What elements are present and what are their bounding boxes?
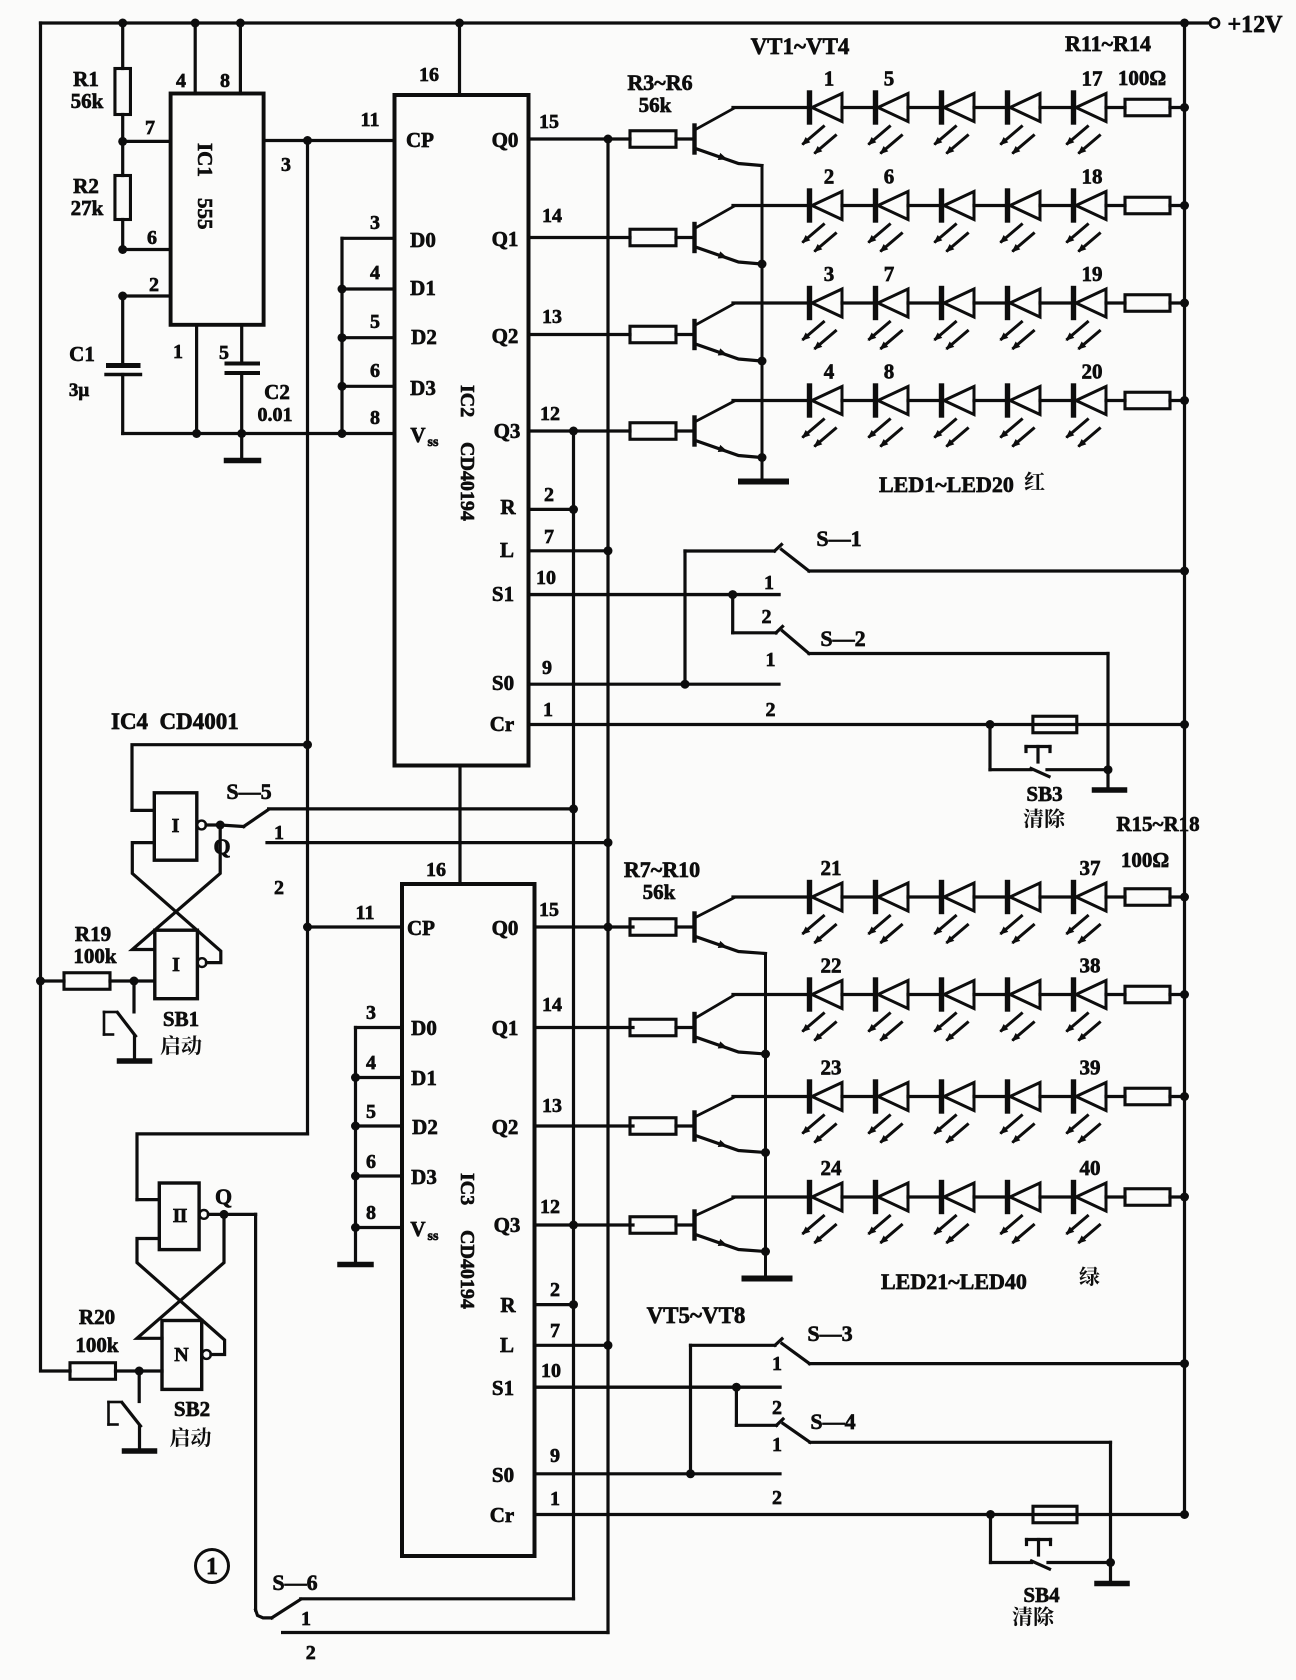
svg-text:VT5~VT8: VT5~VT8 [647,1303,746,1328]
resistor base R7-R10[0] [630,919,676,936]
wire IC3 S1 row [535,1385,781,1388]
wire IC3 Q0 stub [535,925,634,928]
svg-text:1: 1 [824,67,835,91]
svg-text:R2: R2 [73,174,99,198]
svg-text:40: 40 [1080,1156,1101,1180]
svg-text:12: 12 [540,403,560,425]
wire D2 stub [342,336,395,339]
wire latch1 cross B [132,843,221,963]
wire Q1 stub [529,236,631,239]
svg-text:2: 2 [762,606,772,628]
svg-text:6: 6 [370,360,380,382]
resistor R16 [1106,993,1125,996]
svg-text:1: 1 [772,1434,782,1456]
svg-text:9: 9 [550,1445,560,1467]
svg-text:7: 7 [884,262,895,286]
wire latch2 cross A [137,1214,224,1338]
svg-text:12: 12 [540,1196,560,1218]
svg-text:24: 24 [821,1156,843,1180]
svg-text:CD40194: CD40194 [456,1230,478,1309]
LED row 8 LEDs 24..40 [807,1183,812,1212]
svg-text:S—1: S—1 [816,526,861,551]
wire Cr row [529,723,1185,726]
wire S-1 output [809,569,1185,572]
ground SB3 [1106,770,1109,788]
svg-text:SB4: SB4 [1023,1583,1060,1607]
svg-text:Q: Q [215,1184,232,1209]
LED row 2 LEDs 2,6..18 [807,191,812,220]
svg-text:100k: 100k [73,944,117,968]
svg-text:15: 15 [539,899,559,921]
wire IC3 pin16 [458,766,461,885]
resistor base R7-R10[1] [630,1019,676,1036]
svg-text:4: 4 [370,262,380,284]
svg-text:Q1: Q1 [492,227,519,251]
wire 555 pin5 [240,325,243,362]
switch SB3 [988,725,991,770]
svg-text:V: V [410,1217,425,1241]
svg-text:Q2: Q2 [492,324,519,348]
shift register IC3 CD40194 box [402,884,535,1556]
wire collector row VT1 [733,106,810,109]
wire Q3 stub [529,429,631,432]
svg-text:19: 19 [1082,262,1103,286]
wire collector row VT4 [733,1195,810,1198]
svg-text:8: 8 [370,407,380,429]
svg-text:8: 8 [366,1202,376,1224]
transistor VT3 [692,321,696,348]
svg-text:37: 37 [1080,856,1101,880]
svg-text:S1: S1 [492,1376,514,1400]
svg-text:Q3: Q3 [494,1213,521,1237]
svg-text:0.01: 0.01 [258,404,293,426]
wire latch2 Q drop [254,1214,257,1610]
svg-text:13: 13 [542,306,562,328]
svg-text:17: 17 [1082,67,1103,91]
svg-text:8: 8 [884,360,895,384]
wire IC3 S0 row [535,1472,781,1475]
label SB4 qingchu [1013,1607,1033,1627]
wire clock vertical [306,141,309,1134]
resistor SB4 pullup [1033,1506,1077,1523]
svg-text:7: 7 [544,526,554,548]
svg-text:20: 20 [1082,360,1103,384]
resistor base R7-R10[2] [630,1118,676,1135]
svg-text:S—5: S—5 [226,779,271,804]
transistor VT1 [692,914,696,941]
svg-text:SB2: SB2 [174,1397,210,1421]
svg-text:N: N [174,1344,189,1366]
svg-text:2: 2 [544,484,554,506]
resistor R19 [41,979,65,982]
svg-text:5: 5 [219,342,229,364]
resistor R14 [1106,399,1125,402]
wire IC3 Q1 stub [535,1026,634,1029]
svg-text:ss: ss [428,435,439,450]
svg-text:10: 10 [536,567,556,589]
wire IC3 Q3 stub [535,1223,634,1226]
svg-text:555: 555 [193,198,217,230]
svg-text:VT1~VT4: VT1~VT4 [751,34,850,59]
junction Cr row to SB3 [986,720,995,729]
svg-text:D3: D3 [410,376,436,400]
wire latch2 cross B [137,1239,225,1355]
svg-text:100Ω: 100Ω [1121,848,1169,872]
svg-text:4: 4 [176,70,186,92]
svg-text:4: 4 [366,1052,376,1074]
svg-text:2: 2 [149,274,159,296]
switch S-1 [685,549,775,552]
wire IC3 Cr row [535,1513,1185,1516]
svg-text:3: 3 [281,154,291,176]
svg-text:D3: D3 [411,1165,437,1189]
svg-text:LED21~LED40: LED21~LED40 [881,1269,1027,1294]
svg-text:56k: 56k [71,89,104,113]
wire IC3 D2 stub [356,1124,403,1127]
wire IC3 D1 stub [356,1076,403,1079]
wire S-5 contact2 [267,841,608,844]
junction emitter VT3 [761,1148,770,1157]
junction S1 row [728,590,737,599]
gate IV of IC4 [162,1321,202,1390]
svg-text:I: I [172,815,180,837]
svg-text:11: 11 [356,902,375,924]
svg-text:3μ: 3μ [69,380,90,401]
svg-text:23: 23 [821,1056,842,1080]
ground VT emitters [745,1276,790,1282]
svg-text:I: I [180,1205,188,1227]
svg-text:CP: CP [407,916,435,940]
wire collector row VT4 [733,399,810,402]
node +12V supply terminal [1210,18,1219,27]
svg-text:1: 1 [543,699,553,721]
wire pin8 [239,23,242,94]
switch S-2 [731,595,734,633]
wire latch1 gate1 input [132,809,154,812]
svg-text:21: 21 [821,856,842,880]
wire L stub [529,549,609,552]
wire pin7 row [123,140,171,143]
svg-text:D0: D0 [410,228,436,252]
svg-text:10: 10 [541,1360,561,1382]
wire S-6 contact2 [283,1631,608,1634]
svg-text:C2: C2 [264,380,290,404]
wire latch2 top [137,1134,308,1200]
junction Cr resistor to rail [1180,720,1189,729]
switch SB4 [989,1515,992,1563]
svg-text:39: 39 [1080,1056,1101,1080]
svg-text:IC1: IC1 [193,143,217,177]
svg-text:IC4 CD4001: IC4 CD4001 [111,709,239,734]
svg-text:4: 4 [824,360,835,384]
resistor R18 [1106,1195,1125,1198]
transistor VT4 [692,418,696,445]
svg-text:R1: R1 [73,67,99,91]
svg-text:I: I [172,954,180,976]
wire top +12V rail [41,21,1211,24]
wire IC3 L stub [535,1344,609,1347]
svg-text:S—2: S—2 [820,626,865,651]
svg-text:IC2: IC2 [456,385,478,417]
ground SB1 [120,1058,150,1064]
label SB3 qingchu [1024,809,1044,829]
svg-text:+12V: +12V [1227,12,1283,38]
resistor base R7-R10[3] [630,1217,676,1234]
svg-text:5: 5 [884,67,895,91]
junction emitter VT4 [758,453,767,462]
transistor VT3 [692,1113,696,1140]
svg-text:56k: 56k [639,93,672,117]
wire IC3 data ladder [354,1028,357,1228]
junction emitter VT3 [758,357,767,366]
wire latch2 gate3 input [137,1198,159,1201]
wire S-3 contact1 drop [689,1345,692,1474]
wire Q0 stub [529,137,631,140]
ground IC3 Vss [354,1228,357,1262]
svg-text:SB3: SB3 [1026,782,1062,806]
svg-text:1: 1 [550,1488,560,1510]
wire S-1 contact1 drop [683,551,686,684]
svg-text:L: L [500,538,514,562]
svg-text:1: 1 [764,572,774,594]
svg-text:2: 2 [550,1279,560,1301]
svg-text:22: 22 [821,954,842,978]
wire IC3 D0 stub [356,1026,403,1029]
switch SB2 pushbutton [138,1371,141,1402]
svg-text:14: 14 [542,994,562,1016]
svg-text:2: 2 [766,699,776,721]
wire S-4 output [810,1441,1111,1444]
transistor VT2 [692,224,696,251]
svg-text:R7~R10: R7~R10 [624,857,700,882]
capacitor C1 [121,296,124,364]
wire IC3 CP row [308,925,403,928]
ground SB2 [125,1448,155,1454]
wire IC3 Q2 stub [535,1124,634,1127]
svg-text:6: 6 [147,227,157,249]
wire gate1 output [206,823,220,826]
svg-text:8: 8 [220,70,230,92]
svg-text:9: 9 [542,657,552,679]
svg-text:S—3: S—3 [807,1321,852,1346]
svg-text:R19: R19 [75,922,111,946]
resistor base R3-R6[3] [630,423,676,440]
svg-text:5: 5 [366,1101,376,1123]
gate II of IC4 [155,930,198,999]
svg-text:5: 5 [370,311,380,333]
svg-text:6: 6 [884,165,895,189]
transistor VT4 [692,1212,696,1239]
svg-text:SB1: SB1 [163,1007,199,1031]
svg-text:R3~R6: R3~R6 [627,70,692,95]
LED row 1 LEDs 1,5..17 [807,93,812,122]
svg-text:Q2: Q2 [492,1115,519,1139]
junction top rail to right rail [1180,19,1189,28]
junction Cr2 row to SB4 [986,1510,995,1519]
svg-text:3: 3 [366,1002,376,1024]
wire common emitter VT [761,166,764,479]
wire 555 pin1 [195,325,198,434]
svg-text:Q1: Q1 [492,1016,519,1040]
svg-text:1: 1 [274,822,284,844]
LED row 6 LEDs 22..38 [807,980,812,1009]
svg-text:D1: D1 [411,1066,437,1090]
label SB2 qidong [170,1427,189,1447]
resistor R15 [1106,895,1125,898]
resistor R20 [68,1369,71,1372]
wire common emitter VT [764,954,767,1276]
svg-text:100k: 100k [75,1333,119,1357]
wire 555 ground bus [123,432,395,435]
switch S-6 [256,1610,272,1618]
resistor R1 [121,23,124,69]
junction R1 top at rail [118,19,127,28]
svg-text:2: 2 [824,165,835,189]
junction Cr2 resistor to rail [1180,1510,1189,1519]
op-amp U1 IC1 555 timer box [171,94,264,325]
svg-text:D2: D2 [411,325,437,349]
svg-text:16: 16 [419,64,439,86]
gate III of IC4 [159,1183,199,1250]
svg-text:1: 1 [772,1353,782,1375]
svg-text:Cr: Cr [490,712,515,736]
wire D1 stub [342,287,395,290]
svg-text:2: 2 [772,1487,782,1509]
LED row 7 LEDs 23..39 [807,1082,812,1111]
wire S0 row [529,683,780,686]
svg-text:2: 2 [274,877,284,899]
svg-text:38: 38 [1080,954,1101,978]
LED row 4 LEDs 4,8..20 [807,386,812,415]
wire IC2 pin16 [458,23,461,95]
resistor R2 [121,141,124,175]
svg-text:16: 16 [426,859,446,881]
svg-text:14: 14 [542,205,562,227]
resistor base R3-R6[0] [630,131,676,148]
wire S-6 contact1 [301,1597,574,1600]
wire IC2 data ladder [340,238,343,433]
wire R stub [529,508,574,511]
junction IC3 S1 row [732,1383,741,1392]
svg-text:ss: ss [428,1229,439,1244]
svg-text:Q0: Q0 [492,916,519,940]
wire IC3 R stub [535,1303,574,1306]
wire Q2 stub [529,333,631,336]
svg-text:27k: 27k [71,196,104,220]
svg-text:18: 18 [1082,165,1103,189]
svg-text:D0: D0 [411,1016,437,1040]
capacitor C2 [227,362,259,366]
svg-text:Q: Q [213,834,230,859]
svg-text:15: 15 [539,111,559,133]
svg-text:2: 2 [772,1397,782,1419]
resistor R17 [1106,1095,1125,1098]
svg-text:56k: 56k [643,880,676,904]
wire right +12V rail [1183,23,1186,1515]
LED row 5 LEDs 21..37 [807,883,812,912]
wire S-5 contact1 [269,807,574,810]
svg-text:LED1~LED20: LED1~LED20 [879,472,1014,497]
svg-text:Q3: Q3 [494,419,521,443]
switch S-4 [735,1387,738,1425]
resistor R11 [1106,106,1125,109]
svg-text:L: L [500,1333,514,1357]
switch S-3 [691,1344,776,1347]
wire 555 pin3 to IC2 CP [264,139,395,142]
svg-text:S—6: S—6 [272,1570,317,1595]
svg-text:IC3: IC3 [456,1173,478,1205]
wire pin2 row [123,294,171,297]
svg-text:S0: S0 [492,1463,514,1487]
wire latch1 cross A [132,825,220,950]
wire IC3 Vss stub [356,1226,403,1229]
junction emitter VT2 [758,260,767,269]
wire IC3 D3 stub [356,1174,403,1177]
svg-text:CD40194: CD40194 [456,442,478,521]
wire collector row VT3 [733,301,810,304]
svg-text:Cr: Cr [490,1503,515,1527]
svg-text:1: 1 [766,649,776,671]
gate I of IC4 [154,793,197,860]
junction emitter VT2 [761,1050,770,1059]
svg-text:13: 13 [542,1095,562,1117]
svg-text:1: 1 [301,1608,311,1630]
ground SB4 [1109,1563,1112,1581]
wire S-2 output [809,652,1108,655]
svg-text:S0: S0 [492,671,514,695]
svg-text:S—4: S—4 [810,1409,855,1434]
svg-text:6: 6 [366,1151,376,1173]
svg-text:1: 1 [206,1554,218,1580]
label SB1 qidong [161,1035,180,1055]
wire pin6 row [123,248,171,251]
svg-text:R: R [500,1293,516,1317]
svg-text:7: 7 [145,117,155,139]
svg-text:100Ω: 100Ω [1118,66,1166,90]
ground below C2 [240,434,243,459]
ground VT emitters [741,479,786,485]
wire pin4 [194,23,197,94]
wire S-3 output [810,1362,1185,1365]
wire left rail [41,23,71,1371]
wire collector row VT2 [733,993,810,996]
junction emitter VT4 [761,1247,770,1256]
svg-text:CP: CP [406,128,434,152]
svg-text:R20: R20 [79,1305,115,1329]
switch SB1 pushbutton [132,981,135,1012]
svg-text:3: 3 [370,212,380,234]
resistor base R3-R6[1] [630,229,676,246]
svg-text:D2: D2 [412,1115,438,1139]
resistor SB3 pullup [1033,716,1077,733]
wire collector row VT1 [733,895,810,898]
wire gate3 output [208,1213,255,1216]
svg-text:7: 7 [550,1320,560,1342]
transistor VT1 [692,126,696,153]
resistor R13 [1106,301,1125,304]
svg-text:S1: S1 [492,582,514,606]
wire D0 stub [342,237,395,240]
svg-text:R11~R14: R11~R14 [1065,31,1151,56]
svg-text:11: 11 [361,109,380,131]
wire latch1 top [132,745,308,811]
svg-text:D1: D1 [410,276,436,300]
label figure 1 circled [196,1550,229,1583]
wire collector row VT2 [733,204,810,207]
wire shift-select bus 2 [606,139,609,1633]
svg-text:C1: C1 [69,342,95,366]
wire collector row VT3 [733,1095,810,1098]
